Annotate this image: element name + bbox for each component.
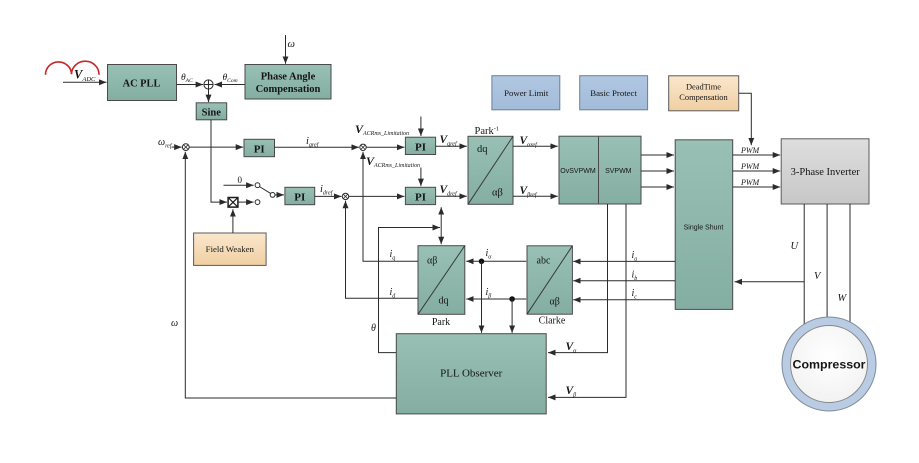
svg-text:Single Shunt: Single Shunt [684, 224, 724, 231]
wire i_a to Clarke [573, 260, 675, 262]
wire d sum to PI4 [349, 195, 405, 197]
block 3-Phase Inverter [781, 139, 869, 204]
block DeadTime Compensation [669, 76, 739, 111]
svg-text:Compensation: Compensation [679, 93, 728, 102]
svg-text:αβ: αβ [427, 256, 437, 267]
switch contact lower [255, 200, 260, 205]
block Basic Protect [580, 76, 648, 110]
wire limitation into PI4 [420, 168, 422, 187]
svg-text:Basic Protect: Basic Protect [590, 88, 637, 98]
svg-text:OvSVPWM: OvSVPWM [560, 168, 596, 175]
block PI speed [244, 139, 275, 156]
wire Single Shunt to inverter PWM3 [733, 186, 781, 188]
wire speed sum to PI1 [189, 146, 243, 148]
svg-text:dq: dq [439, 296, 449, 307]
wire AC PLL to sum [177, 84, 204, 86]
svg-text:PI: PI [294, 192, 305, 204]
svg-text:Field Weaken: Field Weaken [206, 244, 255, 254]
summing junction q current (circle-x) [360, 144, 366, 150]
block Phase Angle Compensation [245, 65, 331, 100]
wire SVPWM to Single Shunt row3 [641, 186, 674, 188]
svg-text:PI: PI [415, 192, 426, 204]
wire PI2 to inverse Park [436, 145, 467, 147]
wire sum to Sine [208, 89, 210, 102]
block PI d current [405, 187, 435, 204]
wire current tap to Single Shunt [735, 281, 805, 283]
svg-text:PWM: PWM [740, 178, 761, 187]
AC input sine-hump waveform (red) [45, 61, 99, 75]
svg-text:PI: PI [415, 142, 426, 154]
wire limitation into PI2 [420, 117, 422, 137]
svg-text:PWM: PWM [740, 162, 761, 171]
wire Field Weaken to multiplier [232, 209, 234, 233]
wire PI3 to d sum [315, 195, 342, 197]
wire i_q feedback [363, 152, 418, 262]
svg-text:Compensation: Compensation [256, 84, 321, 95]
wire phase U [803, 204, 805, 324]
svg-text:SVPWM: SVPWM [605, 168, 632, 175]
theta double arrow up [440, 207, 442, 224]
svg-text:AC PLL: AC PLL [123, 78, 161, 89]
svg-text:Park: Park [432, 317, 450, 328]
svg-text:PWM: PWM [740, 146, 761, 155]
wire SVPWM to Single Shunt row2 [641, 170, 674, 172]
wire DeadTime to PWM line [739, 93, 752, 145]
junction dot i_beta [509, 296, 515, 302]
theta double arrow down [440, 224, 442, 244]
wire i_alpha down to PLL observer [481, 261, 483, 333]
svg-text:Phase Angle: Phase Angle [261, 72, 316, 83]
wire multiplier to switch [238, 201, 253, 203]
wire theta from PLL observer [379, 228, 441, 353]
block AC PLL [108, 65, 177, 101]
svg-text:θ: θ [371, 323, 376, 334]
block PI d reference [285, 187, 315, 204]
svg-text:0: 0 [238, 175, 243, 185]
wire PI1 to q sum [275, 146, 360, 148]
block OvSVPWM and SVPWM [559, 136, 641, 204]
wire i_b to Clarke [573, 280, 675, 282]
svg-text:αβ: αβ [550, 297, 560, 308]
block Power Limit [492, 76, 560, 110]
block Park alphabeta-to-dq [418, 246, 465, 315]
wire q sum to PI2 [366, 146, 404, 148]
summing junction d current (circle-x) [342, 193, 348, 199]
wire SVPWM to Single Shunt row1 [641, 154, 674, 156]
wire V_alpha feedback to PLL observer [548, 204, 608, 353]
svg-text:PI: PI [254, 144, 265, 156]
compressor outer ring [782, 317, 876, 411]
svg-text:Power Limit: Power Limit [504, 88, 549, 98]
svg-text:W: W [838, 293, 848, 304]
summing junction speed (circle-x) [182, 144, 189, 151]
svg-text:ω: ω [288, 39, 295, 50]
wire phase W [849, 204, 851, 322]
wire Phase Angle Compensation to sum [215, 84, 246, 86]
svg-text:ω: ω [171, 318, 178, 329]
wire V_ADC input [63, 81, 107, 83]
wire Clarke i_alpha to Park [466, 260, 526, 262]
block Clarke abc-to-alphabeta [527, 246, 572, 314]
wire i_d feedback [346, 201, 419, 298]
wire Clarke i_beta to Park [466, 298, 526, 300]
wire inverse Park to OvSVPWM upper [513, 145, 558, 147]
block PI q current [405, 137, 435, 154]
block Sine [196, 103, 227, 120]
wire Single Shunt to inverter PWM1 [733, 154, 781, 156]
block inverse Park dq-to-alphabeta [468, 136, 513, 204]
wire i_c to Clarke [573, 299, 675, 301]
wire inverse Park to OvSVPWM lower [513, 195, 558, 197]
compressor inner circle [791, 326, 868, 403]
svg-text:Compressor: Compressor [793, 358, 866, 372]
wire omega feedback to speed sum [185, 152, 396, 398]
summing junction theta [204, 80, 213, 89]
switch pivot [270, 193, 275, 198]
svg-text:3-Phase Inverter: 3-Phase Inverter [791, 167, 861, 178]
wire switch to PI3 [275, 194, 284, 196]
svg-text:Clarke: Clarke [539, 316, 566, 327]
wire omega into Phase Angle Compensation [285, 35, 287, 64]
wire V_beta feedback to PLL observer [548, 204, 626, 397]
switch contact upper [255, 183, 260, 188]
junction dot i_alpha [479, 259, 485, 265]
wire omega_ref input [172, 146, 182, 148]
svg-text:Sine: Sine [202, 108, 222, 119]
block PLL Observer [396, 334, 546, 414]
multiplier box-x [228, 198, 238, 208]
wire Single Shunt to inverter PWM2 [733, 170, 781, 172]
wire Sine output to multiplier [211, 120, 227, 202]
svg-text:αβ: αβ [492, 188, 503, 199]
switch lever [259, 187, 271, 194]
wire i_beta down to PLL observer [511, 299, 513, 333]
wire zero input to switch [224, 184, 254, 186]
wire phase V [826, 204, 828, 318]
svg-text:DeadTime: DeadTime [686, 83, 721, 92]
svg-text:abc: abc [537, 256, 551, 267]
block Single Shunt [675, 140, 733, 310]
svg-text:dq: dq [477, 144, 488, 155]
block Field Weaken [194, 233, 267, 265]
svg-text:PLL Observer: PLL Observer [440, 368, 503, 380]
wire PI4 to inverse Park [436, 195, 467, 197]
